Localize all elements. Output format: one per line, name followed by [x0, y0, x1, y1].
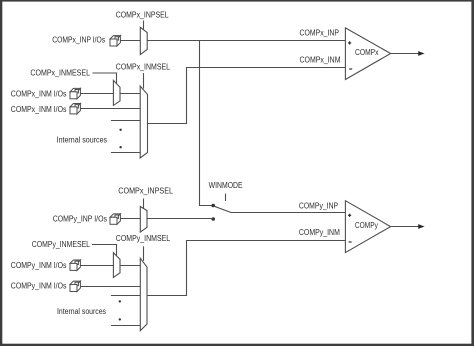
mux COMPx INMSEL (large) [140, 86, 147, 158]
svg-text:COMPy_INM I/Os: COMPy_INM I/Os [11, 282, 67, 291]
svg-text:COMPx_INMSEL: COMPx_INMSEL [116, 63, 171, 72]
wire switch to COMPy comparator [231, 212, 346, 214]
pin icon COMPx_INM I/Os (2) [70, 104, 80, 114]
wire small mux to large mux [120, 93, 140, 95]
select line COMPx_INMSEL [143, 73, 145, 89]
wire internal source stub 1 (lower) [111, 295, 140, 297]
wire COMPy INP mux to switch contact [147, 218, 213, 220]
arrowhead COMPy output [418, 224, 424, 229]
arrowhead COMPx output [418, 51, 424, 56]
plus sign COMPy [348, 214, 351, 217]
select line COMPx_INPSEL [143, 21, 145, 30]
wire COMPy output [391, 226, 419, 228]
wire internal source stub 1 (upper) [111, 120, 140, 122]
switch contact dot (window) [211, 204, 215, 208]
switch contact dot (mux) [211, 217, 215, 221]
pin icon COMPy_INM I/Os (1) [70, 260, 80, 270]
svg-text:COMPx_INM: COMPx_INM [300, 56, 341, 65]
op-amp COMPx [345, 28, 390, 80]
minus sign COMPx [349, 68, 352, 70]
mux COMPy INMESEL (small) [113, 253, 120, 278]
ellipsis dot 2 (lower) [119, 318, 121, 320]
ellipsis dot 2 (upper) [119, 146, 121, 148]
svg-text:COMPx_INP I/Os: COMPx_INP I/Os [52, 35, 105, 44]
pin icon COMPx_INM I/Os (1) [70, 88, 80, 98]
wire INM2 icon to large mux [80, 108, 140, 110]
svg-text:COMPx_INP: COMPx_INP [300, 29, 340, 38]
wire internal source stub 2 (lower) [111, 325, 140, 327]
svg-text:Internal sources: Internal sources [57, 307, 106, 316]
wire COMPx_INP mux output to comparator [147, 40, 345, 42]
select line COMPx_INPSEL (lower) [143, 199, 145, 209]
pin icon COMPx_INP I/Os [110, 36, 120, 46]
svg-text:COMPy_INP: COMPy_INP [299, 201, 338, 210]
svg-text:Internal sources: Internal sources [57, 135, 108, 144]
ellipsis dot 1 (upper) [119, 129, 121, 131]
svg-text:COMPy_INM: COMPy_INM [299, 228, 340, 237]
wire COMPx INM mux output to comparator [148, 68, 346, 124]
select line COMPy_INMSEL [143, 246, 145, 260]
wire internal source stub 2 (upper) [111, 152, 140, 154]
svg-text:COMPx_INM I/Os: COMPx_INM I/Os [11, 105, 67, 114]
wire COMPx output [391, 53, 419, 55]
mux COMPx INMESEL (small) [113, 80, 120, 105]
pin icon COMPy_INM I/Os (2) [70, 281, 80, 291]
minus sign COMPy [349, 241, 352, 243]
svg-text:COMPx_INMESEL: COMPx_INMESEL [30, 68, 90, 77]
wire INM1 icon to small mux (lower) [80, 265, 113, 267]
select line WINMODE [225, 194, 227, 201]
svg-text:COMPx_INPSEL: COMPx_INPSEL [118, 186, 173, 195]
select line COMPy_INMESEL [92, 245, 117, 257]
ellipsis dot 1 (lower) [119, 300, 121, 302]
wire INM2 icon to large mux (lower) [80, 286, 140, 288]
svg-text:WINMODE: WINMODE [209, 181, 243, 190]
svg-text:COMPy_INMESEL: COMPy_INMESEL [32, 240, 91, 249]
switch blade [214, 206, 231, 212]
wire INM1 icon to small mux [80, 93, 113, 95]
mux COMPy INMSEL (large) [140, 258, 147, 330]
wire icon to INP mux [120, 40, 140, 42]
svg-text:COMPy_INM I/Os: COMPy_INM I/Os [11, 261, 67, 270]
svg-text:COMPx_INM I/Os: COMPx_INM I/Os [11, 90, 67, 99]
wire window-mode branch vertical [200, 41, 212, 206]
wire icon to COMPy INP mux [120, 218, 140, 220]
svg-text:COMPy_INP I/Os: COMPy_INP I/Os [53, 214, 107, 223]
mux COMPy INP [140, 207, 147, 233]
wire COMPy INM mux output to comparator [147, 241, 345, 296]
mux COMPx INP [140, 27, 147, 54]
select line COMPx_INMESEL [93, 73, 117, 84]
svg-text:COMPx: COMPx [355, 48, 379, 57]
op-amp COMPy [345, 201, 390, 253]
svg-text:COMPy_INMSEL: COMPy_INMSEL [116, 234, 171, 243]
svg-text:COMPy: COMPy [355, 221, 378, 230]
wire small mux to large mux (lower) [120, 265, 140, 267]
svg-text:COMPx_INPSEL: COMPx_INPSEL [116, 10, 170, 19]
plus sign COMPx [348, 41, 351, 44]
pin icon COMPy_INP I/Os [110, 214, 120, 224]
